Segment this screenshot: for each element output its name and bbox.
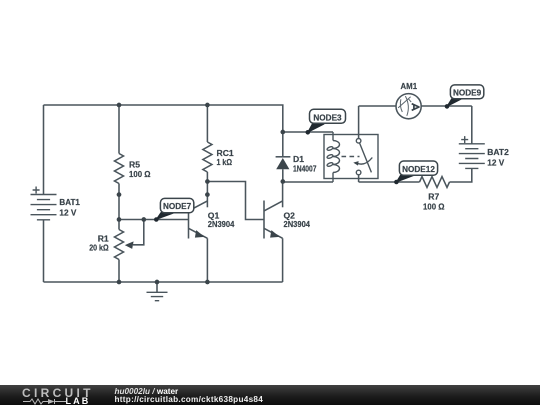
junction R1 wiper tap xyxy=(141,217,146,222)
ground xyxy=(147,282,168,301)
wire relay coil bottom to D1 xyxy=(283,181,333,183)
transistor Q2 xyxy=(264,182,310,239)
svg-text:2N3904: 2N3904 xyxy=(284,219,311,229)
junction top rail RC1 xyxy=(205,103,210,108)
resistor RC1 xyxy=(203,142,234,172)
junction top rail R5 xyxy=(117,103,122,108)
wire R5 top lead xyxy=(118,105,120,154)
svg-text:1N4007: 1N4007 xyxy=(293,163,317,173)
wire node3 (D1 to relay coil) xyxy=(283,131,333,133)
svg-text:R7: R7 xyxy=(428,192,439,202)
node NODE9 xyxy=(445,85,484,108)
footer text xyxy=(115,387,179,396)
wire BAT2 top lead xyxy=(471,106,473,144)
wire top rail xyxy=(44,105,283,132)
wire R5 to R1 xyxy=(118,184,120,230)
svg-text:100 Ω: 100 Ω xyxy=(129,169,151,179)
junction node7 left xyxy=(117,217,122,222)
svg-text:NODE12: NODE12 xyxy=(402,165,435,174)
wire RC1 to Q2 base xyxy=(207,182,264,220)
wire Q2 emitter lead xyxy=(282,238,284,282)
svg-text:NODE3: NODE3 xyxy=(313,114,342,123)
junction D1 bottom xyxy=(280,179,285,184)
circuitlab logo xyxy=(22,386,94,400)
svg-text:12 V: 12 V xyxy=(487,157,504,167)
junction RC1 bottom xyxy=(205,179,210,184)
junction bottom rail ground xyxy=(155,280,160,285)
svg-text:1 kΩ: 1 kΩ xyxy=(217,157,233,167)
junction Q1 collector pin xyxy=(205,192,210,197)
svg-text:2N3904: 2N3904 xyxy=(208,219,235,229)
junction node3 D1 top xyxy=(280,130,285,135)
resistor R7 xyxy=(420,177,450,212)
junction bottom rail R1 xyxy=(117,280,122,285)
battery BAT2 xyxy=(459,136,509,168)
svg-text:D1: D1 xyxy=(293,154,304,164)
potentiometer R1 xyxy=(89,220,144,260)
wire R1 bottom lead xyxy=(118,260,120,283)
wire base node7 (R1/R5 tap to Q1 base) xyxy=(119,219,189,221)
ammeter AM1 xyxy=(396,81,421,119)
svg-text:NODE7: NODE7 xyxy=(163,202,192,211)
wire Q1 emitter lead xyxy=(206,238,208,282)
wire bottom rail xyxy=(44,281,283,283)
svg-text:100 Ω: 100 Ω xyxy=(423,201,445,211)
svg-text:12 V: 12 V xyxy=(59,208,76,218)
junction bottom rail Q1 emitter xyxy=(205,280,210,285)
wire ammeter to BAT2 xyxy=(421,105,472,107)
diode D1 xyxy=(276,132,317,182)
node NODE7 xyxy=(155,198,194,221)
footer bar xyxy=(0,385,540,405)
battery BAT1 xyxy=(31,187,81,220)
svg-text:NODE9: NODE9 xyxy=(453,89,482,98)
node NODE12 xyxy=(395,161,438,184)
svg-text:R5: R5 xyxy=(129,159,140,169)
relay K1 xyxy=(324,106,378,182)
resistor R5 xyxy=(115,154,151,184)
wire relay switch to R7 xyxy=(359,181,420,183)
wire left column top (battery feed) xyxy=(43,105,45,195)
wire RC1 top lead xyxy=(206,105,208,142)
svg-text:AM1: AM1 xyxy=(401,81,418,91)
junction R5 bottom pin xyxy=(117,192,122,197)
node NODE3 xyxy=(306,109,346,134)
wire RC1 bottom lead xyxy=(206,172,208,182)
svg-text:20 kΩ: 20 kΩ xyxy=(89,242,109,252)
svg-text:BAT2: BAT2 xyxy=(487,147,509,157)
wire left column bottom xyxy=(43,220,45,282)
wire R7 to BAT2 xyxy=(450,168,472,182)
svg-text:BAT1: BAT1 xyxy=(59,197,80,207)
wire Q1 collector feed xyxy=(206,182,208,195)
transistor Q1 xyxy=(189,195,235,239)
wire switch to ammeter xyxy=(359,105,397,107)
